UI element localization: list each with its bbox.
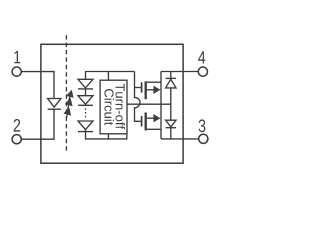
MOSFET Q1 channel bar — [145, 81, 147, 99]
package outline — [41, 44, 183, 163]
light arrow 2 — [64, 97, 75, 110]
pin 4 terminal — [198, 67, 207, 76]
pin 2 terminal — [12, 135, 21, 144]
stack bottom wire to box stubs — [86, 130, 127, 139]
photodiode stack top wire to gate rail — [86, 72, 135, 80]
pin 3 terminal — [199, 134, 208, 143]
light arrow 3 — [62, 106, 73, 119]
MOSFET Q2 gate bar — [141, 116, 143, 127]
source wire (common) box to diode column — [127, 103, 171, 105]
pin 3 label — [199, 119, 206, 132]
label Circuit — [104, 89, 114, 125]
Q2 source arrow — [147, 117, 155, 119]
label Turn-off — [116, 84, 126, 130]
wire to pin 4 — [161, 71, 198, 73]
Q1 source arrow — [147, 89, 155, 91]
dotted continuation of stack — [85, 108, 87, 119]
gate rail with hop over source wire — [135, 72, 141, 122]
wire pin2 to LED cathode — [21, 109, 54, 139]
MOSFET Q2 channel bar — [145, 113, 147, 131]
wire PD1-PD2 — [85, 89, 87, 96]
stub stack bottom to box bottom — [107, 134, 109, 139]
photodiode PDn — [78, 121, 93, 130]
LED D1 (input diode) — [48, 99, 61, 108]
body diode D3 (bottom) — [170, 104, 172, 120]
wire to pin 3 — [161, 138, 199, 140]
MOSFET Q1 gate bar — [141, 82, 143, 92]
photodiode PD2 — [78, 96, 93, 105]
stub top wire to box top — [107, 72, 109, 81]
light arrow 1 — [65, 89, 76, 102]
output vertical line (drain-source) — [160, 72, 162, 139]
pin 4 label — [198, 51, 205, 63]
turn-off circuit box U1 — [100, 80, 127, 134]
pin 2 label — [14, 119, 20, 132]
pin 1 label — [14, 51, 20, 63]
pin 1 terminal — [12, 67, 21, 76]
body diode D2 (top) — [170, 72, 172, 79]
wire pin1 to LED anode — [21, 72, 54, 99]
Q1 drain link — [147, 81, 161, 83]
top gate wire — [135, 87, 141, 89]
optical isolation dashed line — [65, 35, 67, 153]
photodiode PD1 — [78, 79, 93, 88]
Q2 drain link — [147, 128, 161, 130]
